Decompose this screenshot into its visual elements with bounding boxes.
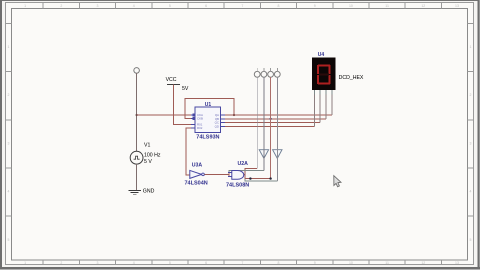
junction dot b [269, 177, 271, 179]
svg-text:6: 6 [205, 261, 207, 265]
wire AND output stub to ladder [244, 174, 246, 176]
svg-text:5: 5 [470, 238, 472, 242]
svg-text:2: 2 [8, 93, 10, 97]
svg-text:V1: V1 [144, 143, 150, 149]
VCC power symbol [167, 84, 180, 86]
unlit middle segment [319, 74, 329, 76]
window edge bottom [0, 267, 480, 269]
junction dot QA loop tap [233, 114, 235, 116]
bus vertical 4 (through buffer 2) [276, 77, 278, 181]
V1 clock source [130, 151, 143, 164]
junction dot at CLKA tap [136, 114, 138, 116]
mouse cursor [334, 176, 341, 187]
svg-text:DCD_HEX: DCD_HEX [339, 75, 364, 81]
svg-text:5V: 5V [182, 86, 189, 92]
AND gate U2A 74LS08N [232, 171, 244, 180]
svg-text:7: 7 [241, 261, 243, 265]
svg-text:VCC: VCC [166, 77, 177, 83]
svg-text:QD: QD [215, 124, 219, 128]
svg-text:U1: U1 [205, 102, 212, 108]
bus vertical 1 [256, 77, 258, 168]
svg-text:5: 5 [8, 238, 10, 242]
svg-text:1: 1 [24, 261, 26, 265]
wire VCC to R01 pin [173, 85, 190, 125]
svg-text:5 V: 5 V [144, 159, 152, 165]
svg-text:CKB: CKB [197, 117, 203, 121]
svg-text:9: 9 [314, 261, 316, 265]
window edge right [478, 0, 480, 270]
svg-text:74LS04N: 74LS04N [185, 180, 208, 186]
svg-text:74LS08N: 74LS08N [226, 183, 249, 189]
wire CLKA: V1 line to U1 pin [137, 114, 191, 116]
svg-text:3: 3 [97, 4, 99, 8]
svg-text:100 Hz: 100 Hz [144, 153, 161, 159]
svg-text:3: 3 [470, 141, 472, 145]
wire from terminal down to V1 [136, 73, 138, 151]
svg-text:12: 12 [421, 4, 425, 8]
bus vertical 3 [270, 77, 272, 178]
buffer triangle 2 [273, 150, 282, 159]
wire from buffer1 into AND top input [229, 171, 264, 173]
svg-text:U3A: U3A [192, 162, 203, 168]
svg-text:4: 4 [133, 261, 135, 265]
svg-text:4: 4 [133, 4, 135, 8]
wire row QD to display pin 1 [225, 125, 314, 127]
clock pin markers on U1 [193, 114, 196, 117]
wire V1 to ground [136, 164, 138, 190]
bus vertical 2 (through buffer 1) [263, 77, 265, 170]
svg-text:7: 7 [241, 4, 243, 8]
window edge left [0, 0, 2, 270]
svg-text:11: 11 [385, 4, 389, 8]
svg-text:U2A: U2A [238, 161, 249, 167]
wire row QB to display pin 3 [225, 118, 326, 120]
svg-text:8: 8 [278, 4, 280, 8]
svg-text:U4: U4 [318, 52, 325, 58]
wire inverter output to AND input [204, 173, 228, 175]
svg-text:2: 2 [60, 4, 62, 8]
svg-text:2: 2 [470, 93, 472, 97]
svg-text:8: 8 [278, 261, 280, 265]
svg-text:R02: R02 [197, 126, 203, 130]
svg-text:2: 2 [60, 261, 62, 265]
display segments showing 0 [317, 64, 331, 84]
svg-text:3: 3 [97, 261, 99, 265]
display pin stubs [314, 90, 331, 95]
terminal circle (open wire end above V1) [134, 68, 140, 74]
junction dot a [249, 177, 251, 179]
svg-text:5: 5 [169, 4, 171, 8]
svg-text:12: 12 [421, 261, 425, 265]
wire row QC to display pin 2 [225, 122, 320, 124]
svg-text:5: 5 [169, 261, 171, 265]
wire row QA to display pin 4 [225, 114, 332, 116]
junction dot on QB row [270, 118, 272, 120]
wire R02 pin down to inverter input [186, 128, 191, 175]
svg-text:13: 13 [455, 261, 459, 265]
svg-text:6: 6 [205, 4, 207, 8]
ground symbol [129, 190, 141, 194]
svg-text:9: 9 [314, 4, 316, 8]
svg-text:1: 1 [470, 45, 472, 49]
buffer triangle 1 [259, 150, 268, 159]
svg-text:74LS93N: 74LS93N [196, 134, 219, 140]
U1 inner pin names [197, 113, 219, 130]
svg-text:GND: GND [143, 189, 155, 195]
chip U1 74LS93N [191, 107, 225, 132]
svg-text:4: 4 [470, 190, 472, 194]
window edge top [0, 0, 480, 1]
svg-text:10: 10 [349, 261, 353, 265]
wire loop QA to CLKB over chip [185, 99, 234, 119]
wire dots row [245, 178, 271, 180]
open terminal circles row [254, 71, 280, 77]
svg-text:1: 1 [8, 45, 10, 49]
svg-text:3: 3 [8, 141, 10, 145]
inverter U3A 74LS04N [190, 170, 202, 178]
zone ticks left band [6, 23, 12, 216]
svg-text:10: 10 [349, 4, 353, 8]
svg-text:11: 11 [385, 261, 389, 265]
zone ticks right band [468, 23, 474, 216]
seven segment display U4 body [312, 58, 336, 90]
svg-text:1: 1 [24, 4, 26, 8]
svg-text:13: 13 [455, 4, 459, 8]
svg-text:4: 4 [8, 190, 10, 194]
zone ticks bottom band [43, 260, 441, 265]
wire ladder right of AND gate [245, 169, 257, 179]
